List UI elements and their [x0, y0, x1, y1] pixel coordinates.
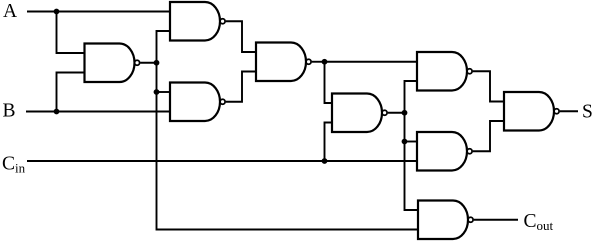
junction dot U1 output to U3 branch	[154, 89, 160, 95]
wire net A branch down to gate U1 upper input	[57, 12, 85, 54]
wire node P down to U5 upper input	[325, 62, 333, 103]
junction dot net Cin branch	[322, 158, 328, 164]
wire net B branch up to gate U1 lower input	[57, 73, 85, 112]
nand gate U7 NAND(U5,Cin)	[417, 132, 472, 171]
wire U1 output to U3 upper input	[157, 91, 171, 93]
wire U2 output to U4 upper input	[226, 21, 256, 52]
wire U5 output bus up to U6 lower input and down to U9 upper input	[405, 81, 419, 210]
svg-text:A: A	[3, 1, 17, 22]
nand gate U9 NAND(U5,U1) output Cout	[418, 201, 473, 240]
junction dot U5 output	[402, 110, 408, 116]
wire U1 output bus up to U2 lower input and down to U9 lower input	[157, 31, 419, 230]
nand gate U3 NAND(U1,B)	[170, 83, 225, 122]
nand gate U6 NAND(P,U5)	[417, 52, 472, 91]
junction dot net A	[54, 9, 60, 15]
svg-text:B: B	[3, 100, 16, 121]
wire U6 output to U8 upper input	[473, 71, 504, 101]
nand gate U2 NAND(A,U1)	[170, 2, 225, 41]
wire U7 output to U8 lower input	[473, 121, 504, 151]
wire output Cout from U9	[474, 219, 518, 221]
junction dot node P	[322, 59, 328, 65]
nand gate U1 NAND(A,B)	[85, 44, 140, 83]
svg-text:S: S	[582, 102, 593, 123]
wire net B horizontal from label B to gate U3 lower input	[26, 111, 170, 113]
wire U5 output stub	[388, 112, 405, 114]
svg-text:Cin: Cin	[2, 153, 26, 175]
wire net Cin horizontal from label to U7 lower input	[27, 160, 417, 162]
junction dot net B	[54, 109, 60, 115]
wire U5 output to U7 upper input	[405, 141, 418, 143]
nand gate U4 NAND(U2,U3) node P	[256, 43, 311, 82]
nand gate U5 NAND(P,Cin)	[332, 94, 387, 133]
wire net Cin branch up to U5 lower input	[325, 123, 333, 162]
wire net A horizontal from label A to gate U2 upper input	[27, 11, 170, 13]
wire output S from U8	[560, 110, 578, 112]
junction dot U1 output	[154, 60, 160, 66]
wire U3 output to U4 lower input	[226, 72, 256, 102]
svg-text:Cout: Cout	[524, 211, 554, 233]
wire U1 output stub	[140, 62, 156, 64]
junction dot U5 output to U7 branch	[402, 139, 408, 145]
wire node P horizontal to U6 upper input	[325, 61, 418, 63]
wire U4 output stub to node P	[312, 61, 325, 63]
nand gate U8 NAND(U6,U7) output S	[504, 92, 559, 131]
